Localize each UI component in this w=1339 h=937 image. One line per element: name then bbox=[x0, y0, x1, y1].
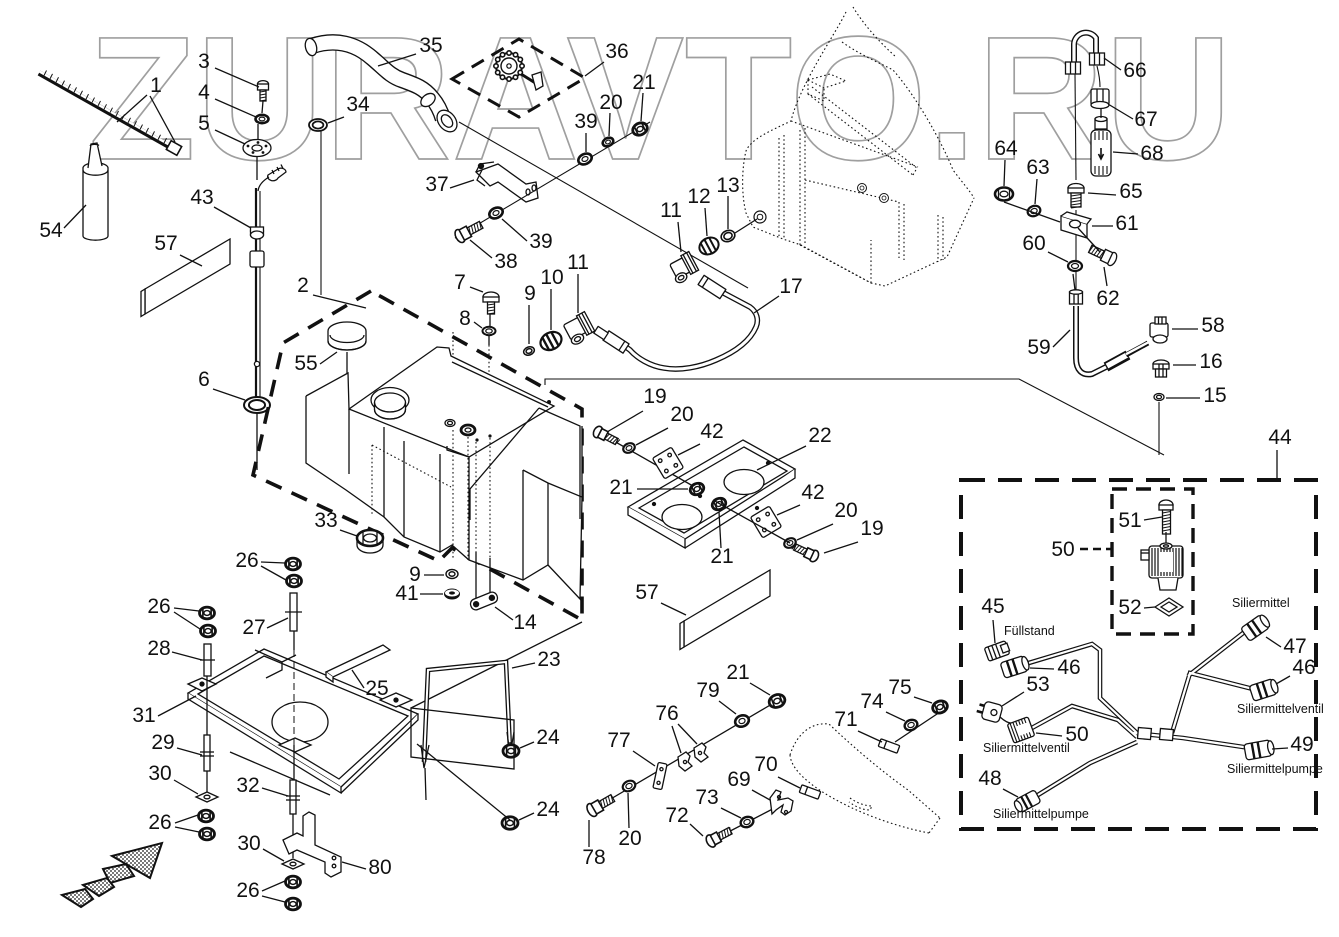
svg-text:20: 20 bbox=[670, 403, 693, 426]
svg-text:Siliermittelventil: Siliermittelventil bbox=[983, 741, 1070, 755]
part 48 connector bbox=[1012, 790, 1041, 814]
svg-text:27: 27 bbox=[242, 616, 265, 639]
svg-text:69: 69 bbox=[727, 768, 750, 791]
svg-text:44: 44 bbox=[1268, 426, 1292, 449]
part 5 flange disc bbox=[243, 140, 271, 157]
pipe from 66 down bbox=[1075, 74, 1076, 180]
svg-text:66: 66 bbox=[1123, 59, 1146, 82]
part 35 filler hose bbox=[304, 37, 462, 136]
part 36 knob bbox=[494, 51, 524, 81]
part 70 pin bbox=[799, 785, 821, 799]
part 57 plate b bbox=[684, 570, 770, 647]
svg-text:32: 32 bbox=[236, 774, 259, 797]
part 58 elbow bbox=[1150, 317, 1168, 343]
svg-text:1: 1 bbox=[150, 74, 162, 97]
svg-text:37: 37 bbox=[425, 173, 448, 196]
part 78 bolt bbox=[585, 792, 616, 818]
svg-text:68: 68 bbox=[1140, 142, 1163, 165]
svg-text:21: 21 bbox=[632, 71, 655, 94]
part 79 washer bbox=[734, 713, 751, 728]
part 1 cable tie bbox=[39, 71, 182, 156]
part 21 nut bbox=[631, 121, 650, 138]
svg-text:79: 79 bbox=[696, 679, 719, 702]
svg-text:25: 25 bbox=[365, 677, 388, 700]
part 62 bolt bbox=[1087, 243, 1118, 268]
svg-text:3: 3 bbox=[198, 50, 210, 73]
svg-text:2: 2 bbox=[297, 274, 309, 297]
machine screws bbox=[858, 184, 889, 203]
part 34 o-ring bbox=[309, 119, 327, 131]
svg-text:8: 8 bbox=[459, 307, 471, 330]
part 15 o-ring bbox=[1154, 394, 1164, 401]
svg-text:21: 21 bbox=[609, 476, 632, 499]
svg-text:23: 23 bbox=[537, 648, 560, 671]
svg-text:47: 47 bbox=[1283, 635, 1306, 658]
part 52 seal bbox=[1155, 598, 1183, 616]
part 75 nut bbox=[931, 699, 949, 715]
part 14 link bbox=[469, 591, 499, 612]
part 68 filter bbox=[1091, 108, 1111, 176]
svg-text:36: 36 bbox=[605, 40, 628, 63]
svg-text:22: 22 bbox=[808, 424, 831, 447]
svg-text:39: 39 bbox=[574, 110, 597, 133]
part 80 bracket bbox=[283, 812, 341, 877]
leader to machine (from hose flange) bbox=[459, 122, 748, 288]
svg-text:Siliermittelventil: Siliermittelventil bbox=[1237, 702, 1324, 716]
svg-text:14: 14 bbox=[513, 611, 537, 634]
svg-text:15: 15 bbox=[1203, 384, 1226, 407]
part 60 washer bbox=[1068, 261, 1082, 271]
part 11 elbow b bbox=[667, 252, 700, 285]
fastener line 72-73-69 bbox=[711, 801, 788, 841]
part 6 ring bbox=[244, 397, 270, 413]
svg-text:54: 54 bbox=[39, 219, 63, 242]
part 42 plate b bbox=[750, 506, 781, 538]
svg-text:42: 42 bbox=[700, 420, 723, 443]
part 13 o-ring bbox=[720, 228, 737, 243]
svg-text:57: 57 bbox=[635, 581, 658, 604]
frame centerline dashed bbox=[293, 650, 295, 745]
part 63 washer bbox=[1026, 204, 1042, 218]
part 37 bracket bbox=[476, 162, 538, 202]
svg-text:19: 19 bbox=[643, 385, 666, 408]
svg-text:28: 28 bbox=[147, 637, 170, 660]
part 9 ring b bbox=[446, 570, 458, 579]
part 72 bolt bbox=[704, 824, 734, 848]
skid blade dotted bbox=[790, 724, 940, 833]
svg-text:74: 74 bbox=[860, 690, 884, 713]
svg-text:72: 72 bbox=[665, 804, 688, 827]
fastener line 78-20-77-76-79-21 bbox=[592, 701, 777, 810]
part 7 screw bbox=[483, 292, 499, 314]
part 21 nut c bbox=[710, 496, 727, 512]
part 20 washer c bbox=[783, 536, 798, 549]
part 54 sealant tube bbox=[83, 143, 108, 240]
svg-text:53: 53 bbox=[1026, 673, 1049, 696]
part 26 nuts bottom-center bbox=[286, 876, 301, 888]
svg-text:7: 7 bbox=[454, 271, 466, 294]
part 41 grommet bbox=[444, 589, 460, 600]
part 26 nuts left bbox=[200, 607, 215, 619]
svg-text:26: 26 bbox=[236, 879, 259, 902]
part 20 washer bbox=[622, 441, 637, 454]
part 36 mirror kit dashed diamond bbox=[452, 39, 585, 117]
svg-text:10: 10 bbox=[540, 266, 563, 289]
svg-text:42: 42 bbox=[801, 481, 824, 504]
svg-text:70: 70 bbox=[754, 753, 777, 776]
part 46 connector b bbox=[1249, 678, 1280, 702]
dashed box 50 bbox=[1112, 489, 1193, 634]
part 29 threaded rod bbox=[200, 735, 214, 771]
part 65 fitting bolt bbox=[1068, 184, 1084, 209]
svg-text:60: 60 bbox=[1022, 232, 1045, 255]
leader lines to box 44 bbox=[545, 379, 1164, 455]
part 27 rod bbox=[285, 593, 302, 631]
svg-text:46: 46 bbox=[1057, 656, 1080, 679]
part 38 bolt bbox=[453, 219, 484, 245]
svg-text:75: 75 bbox=[888, 676, 911, 699]
svg-text:13: 13 bbox=[716, 174, 739, 197]
svg-text:80: 80 bbox=[368, 856, 391, 879]
svg-text:Siliermittel: Siliermittel bbox=[1232, 596, 1290, 610]
part 71 pin bbox=[878, 739, 900, 753]
part 24 nut a bbox=[503, 745, 519, 757]
svg-text:21: 21 bbox=[726, 661, 749, 684]
svg-text:63: 63 bbox=[1026, 156, 1049, 179]
tank dotted internals bbox=[371, 445, 373, 514]
part 20 washer d bbox=[621, 779, 637, 794]
svg-text:48: 48 bbox=[978, 767, 1001, 790]
part 26 nuts bottom-left bbox=[199, 810, 214, 822]
part 76 clips bbox=[678, 743, 708, 771]
svg-text:58: 58 bbox=[1201, 314, 1224, 337]
svg-text:11: 11 bbox=[660, 199, 682, 222]
svg-text:71: 71 bbox=[834, 708, 857, 731]
svg-text:26: 26 bbox=[147, 595, 170, 618]
part 49 connector bbox=[1244, 739, 1275, 760]
part 61 bracket bbox=[1061, 212, 1091, 238]
part 43 fuel sensor bbox=[250, 165, 286, 401]
svg-text:24: 24 bbox=[536, 798, 560, 821]
part 21 nut d bbox=[767, 692, 786, 709]
machine port bbox=[754, 211, 766, 223]
part 33 nut bbox=[357, 530, 383, 553]
part 12 fitting bbox=[696, 234, 721, 258]
svg-text:62: 62 bbox=[1096, 287, 1119, 310]
svg-text:6: 6 bbox=[198, 368, 210, 391]
svg-text:34: 34 bbox=[346, 93, 370, 116]
part 22 tray bbox=[628, 440, 795, 548]
svg-text:57: 57 bbox=[154, 232, 177, 255]
part 30 square washer b bbox=[282, 859, 304, 869]
part 77 plate bbox=[653, 762, 667, 789]
svg-text:64: 64 bbox=[994, 137, 1018, 160]
part 20 washer bbox=[601, 136, 614, 148]
fastener axis line 38-39-20-21 bbox=[455, 122, 650, 238]
part 31 mounting frame bbox=[188, 649, 418, 795]
part 28 bolt bbox=[200, 644, 215, 676]
part 11 elbow a bbox=[562, 312, 596, 346]
part 26 nuts top bbox=[286, 558, 301, 570]
part 10 fitting bbox=[537, 328, 564, 353]
svg-text:26: 26 bbox=[148, 811, 171, 834]
svg-text:67: 67 bbox=[1134, 108, 1157, 131]
part 24 nut b bbox=[502, 817, 518, 829]
svg-text:55: 55 bbox=[294, 352, 317, 375]
svg-text:50: 50 bbox=[1051, 538, 1074, 561]
svg-text:31: 31 bbox=[132, 704, 155, 727]
svg-text:45: 45 bbox=[981, 595, 1004, 618]
svg-text:43: 43 bbox=[190, 186, 213, 209]
svg-text:39: 39 bbox=[529, 230, 552, 253]
part 8 washer bbox=[483, 327, 496, 335]
svg-text:49: 49 bbox=[1290, 733, 1313, 756]
tank top ports bbox=[445, 420, 455, 427]
svg-text:12: 12 bbox=[687, 185, 710, 208]
svg-text:11: 11 bbox=[567, 251, 589, 274]
svg-text:Siliermittelpumpe: Siliermittelpumpe bbox=[1227, 762, 1323, 776]
svg-text:76: 76 bbox=[655, 702, 678, 725]
part 57 plate (left) bbox=[145, 239, 230, 314]
svg-text:5: 5 bbox=[198, 112, 210, 135]
part 4 washer bbox=[256, 115, 269, 123]
svg-text:4: 4 bbox=[198, 81, 210, 104]
svg-text:21: 21 bbox=[710, 545, 733, 568]
svg-text:17: 17 bbox=[779, 275, 802, 298]
direction arrow bbox=[62, 843, 162, 907]
harness junctions bbox=[1137, 727, 1151, 739]
svg-text:Siliermittelpumpe: Siliermittelpumpe bbox=[993, 807, 1089, 821]
filler neck bbox=[371, 388, 409, 420]
part 25 strip bbox=[326, 645, 390, 677]
svg-text:59: 59 bbox=[1027, 336, 1050, 359]
part 3 screw bbox=[258, 81, 269, 101]
part 46 connector a bbox=[1000, 655, 1031, 679]
svg-text:65: 65 bbox=[1119, 180, 1142, 203]
svg-text:52: 52 bbox=[1118, 596, 1141, 619]
part 47 connector bbox=[1241, 613, 1272, 642]
svg-text:73: 73 bbox=[695, 786, 718, 809]
part 74 washer bbox=[903, 718, 919, 732]
part 50 solenoid coil bbox=[1141, 543, 1183, 590]
part 45 connector bbox=[984, 640, 1010, 661]
line from box2 to plate region bbox=[411, 622, 582, 708]
part 21 nut b bbox=[688, 481, 705, 497]
aux plate outline right of frame bbox=[411, 708, 514, 769]
part 59 hose bbox=[1070, 274, 1149, 374]
part 19 bolt bbox=[592, 425, 622, 448]
svg-text:Füllstand: Füllstand bbox=[1004, 624, 1055, 638]
part 51 screw bbox=[1159, 500, 1173, 534]
svg-text:30: 30 bbox=[237, 832, 260, 855]
part 73 washer bbox=[739, 815, 755, 829]
svg-text:20: 20 bbox=[834, 499, 857, 522]
part 39 washer b bbox=[577, 152, 594, 167]
svg-text:9: 9 bbox=[524, 282, 536, 305]
part 23 U-rod bbox=[421, 662, 514, 800]
part 39 washer a bbox=[488, 206, 505, 221]
svg-text:51: 51 bbox=[1118, 509, 1141, 532]
part 30 square washer a bbox=[196, 792, 218, 802]
fastener line 19/20/42/21 upper bbox=[598, 432, 700, 490]
svg-text:20: 20 bbox=[618, 827, 641, 850]
part 53 plug bbox=[975, 699, 1003, 723]
harness wires bbox=[1022, 630, 1253, 798]
part 19 bolt c bbox=[791, 541, 821, 563]
part 17 hose bbox=[594, 275, 758, 369]
machine body dotted outline bbox=[743, 7, 974, 286]
svg-text:77: 77 bbox=[607, 729, 630, 752]
svg-text:38: 38 bbox=[494, 250, 517, 273]
svg-text:16: 16 bbox=[1199, 350, 1222, 373]
svg-text:26: 26 bbox=[235, 549, 258, 572]
part 9 ring a bbox=[522, 345, 535, 356]
part 66 hose elbow bbox=[1066, 33, 1105, 74]
dashed enclosure box 2 bbox=[253, 291, 582, 620]
svg-text:35: 35 bbox=[419, 34, 442, 57]
part 67 nut bbox=[1091, 89, 1109, 109]
part 64 flange nut bbox=[995, 188, 1013, 201]
svg-text:46: 46 bbox=[1292, 656, 1315, 679]
svg-text:19: 19 bbox=[860, 517, 883, 540]
svg-text:20: 20 bbox=[599, 91, 622, 114]
svg-text:61: 61 bbox=[1115, 212, 1138, 235]
svg-text:29: 29 bbox=[151, 731, 174, 754]
tank body bbox=[306, 347, 582, 599]
part 32 rod bbox=[286, 780, 300, 814]
part 16 fitting bbox=[1153, 360, 1169, 377]
part 69 bracket bbox=[770, 790, 793, 815]
svg-text:30: 30 bbox=[148, 762, 171, 785]
svg-text:78: 78 bbox=[582, 846, 605, 869]
svg-text:41: 41 bbox=[395, 582, 418, 605]
part 50 solenoid b bbox=[1007, 717, 1035, 743]
svg-text:33: 33 bbox=[314, 509, 337, 532]
dashed box 44 bbox=[961, 480, 1316, 829]
part 42 plate a bbox=[652, 447, 683, 479]
svg-text:24: 24 bbox=[536, 726, 560, 749]
part 55 breather cap bbox=[328, 322, 366, 350]
